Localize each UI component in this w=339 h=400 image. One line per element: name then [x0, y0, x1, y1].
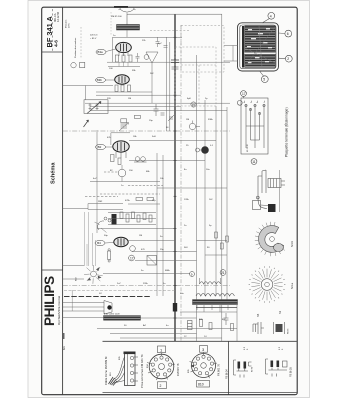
top bus wire [127, 13, 222, 15]
speaker magnet bar [242, 26, 244, 68]
pick-up lead wire [258, 198, 267, 209]
vertical wire x163 [162, 155, 164, 296]
svg-text:Mesures: Mesures [65, 19, 68, 28]
svg-text:PHILIPS: PHILIPS [42, 276, 57, 326]
node 17 [241, 91, 247, 97]
terminal 4 [268, 12, 275, 19]
vertical wire x157 [156, 153, 158, 296]
plug pin leads [134, 356, 138, 358]
svg-text:40 30 20: 40 30 20 [247, 143, 249, 152]
header dashes [52, 9, 54, 51]
terminal 6 [285, 30, 292, 37]
antenna input coil (hatched) [117, 25, 140, 31]
capacitor C2 on bus [171, 60, 179, 63]
pick-up chassis line [279, 170, 281, 212]
svg-text:B2: B2 [98, 145, 102, 149]
RF box wires [113, 36, 183, 38]
resistor R4 [115, 85, 118, 92]
keyboard dashes [64, 296, 151, 298]
mains connector [104, 301, 112, 315]
lower wires [97, 328, 237, 330]
switch contacts [104, 217, 107, 220]
AGC wire [63, 85, 113, 87]
legend dashed pointer [80, 27, 82, 59]
switch bank cluster [112, 214, 117, 225]
coupling cap on bus [173, 303, 177, 312]
capacitor C1 [136, 53, 140, 62]
tube B2 label [96, 144, 106, 149]
oscillator coil caps [154, 104, 159, 116]
light keyboard row [64, 290, 175, 292]
long vertical feeder x205 [204, 100, 206, 296]
resistor R6 [128, 85, 131, 92]
wave switch arc [98, 221, 104, 230]
arrow mark [84, 120, 89, 127]
vertical wire x169 [169, 42, 171, 131]
vertical wire x97 [96, 130, 98, 233]
pick-up plug [268, 179, 281, 188]
tone knob [201, 146, 209, 154]
svg-text:Schéma: Schéma [51, 162, 57, 184]
terminal 2 [285, 55, 292, 62]
svg-text:1M: 1M [139, 235, 142, 237]
dashed output coupling box [181, 26, 224, 73]
frame notch [114, 6, 128, 8]
diode holder B [266, 346, 293, 377]
svg-text:4-6: 4-6 [53, 40, 59, 47]
output transformer primary loops [200, 282, 221, 284]
variable inductor L5 [121, 119, 127, 123]
resistor R2 [122, 55, 125, 62]
svg-text:Prise à broches FM 661 76: Prise à broches FM 661 76 [140, 354, 144, 388]
svg-text:2: 2 [160, 384, 162, 388]
svg-text:S1: S1 [278, 310, 282, 314]
svg-text:21: 21 [221, 271, 225, 275]
ground stub [71, 290, 73, 311]
svg-text:S5: S5 [256, 313, 260, 317]
padder trimmer [168, 115, 174, 121]
terminal 5 [261, 76, 268, 83]
socket B2 bottom tag [197, 381, 210, 388]
node 9 [190, 272, 195, 277]
transformer leads [197, 305, 237, 341]
vertical wire x166 [165, 37, 167, 131]
volume pot [189, 123, 195, 129]
pick-up arm [258, 170, 266, 198]
AF/PS dashed line [63, 285, 230, 287]
resistor R1 [115, 55, 118, 62]
resistor R16 [231, 324, 234, 331]
svg-text:Position des touches: Position des touches [74, 37, 77, 58]
svg-text:1M: 1M [186, 119, 189, 121]
svg-text:Plaquette terminale (Étalonnag: Plaquette terminale (Étalonnage) [284, 107, 289, 157]
osc trimmer caps [156, 37, 160, 47]
bottom panel divider [103, 340, 297, 342]
tube B2 [113, 141, 129, 152]
svg-text:810: 810 [198, 383, 204, 387]
electrolytic capacitor [188, 321, 193, 330]
bus node ticks [174, 37, 177, 318]
loudspeaker block outline [238, 23, 279, 71]
grid leak row [104, 171, 118, 173]
phone jack box [253, 201, 261, 210]
speaker lower winding [245, 54, 276, 67]
screen wire [96, 91, 152, 93]
svg-text:4: 4 [270, 14, 272, 18]
svg-text:S4 a: S4 a [290, 282, 294, 289]
tube B3a label [96, 49, 106, 54]
long vertical feeder x222 [221, 14, 223, 341]
svg-text:S4 b: S4 b [290, 240, 294, 247]
node 17b [129, 255, 135, 261]
legend pushbutton circle [71, 62, 76, 67]
svg-text:FM 87-100: FM 87-100 [111, 16, 122, 18]
tuning gang [84, 100, 108, 114]
keyboard riser wires [84, 212, 86, 266]
svg-text:20°C: 20°C [69, 23, 71, 28]
dashed speaker feed box [175, 47, 216, 106]
tuning arrow [87, 102, 101, 114]
resistor R10 [147, 198, 154, 201]
cable end sheath [109, 377, 118, 386]
osc section wires [129, 140, 216, 142]
heater bar (hatched) [104, 316, 141, 321]
terminal board wires [245, 104, 247, 148]
svg-text:821: 821 [63, 345, 66, 350]
svg-text:2: 2 [287, 57, 289, 61]
detector box [147, 256, 157, 266]
speaker feed wire [224, 45, 238, 47]
node 11 [251, 159, 257, 165]
svg-text:B3b: B3b [97, 78, 103, 82]
osc grid wire [90, 106, 181, 108]
resistor R12 [220, 243, 223, 249]
svg-text:Dpt SERVICE Central: Dpt SERVICE Central [57, 296, 61, 325]
socket B1 bottom tag [158, 382, 167, 389]
bottom panel base [103, 392, 297, 394]
svg-text:80 82: 80 82 [252, 366, 254, 372]
IF coil [118, 169, 126, 177]
speaker upper winding [245, 26, 276, 52]
band selector dashed line [63, 130, 230, 132]
output transformer windings [196, 294, 234, 297]
socket B1 pin1 box [158, 346, 166, 353]
diode holder A [234, 360, 254, 378]
socket B2 arrow [191, 365, 195, 368]
svg-text:Câble Fiche FM 889 M: Câble Fiche FM 889 M [104, 356, 108, 385]
svg-text:+ 85 V: + 85 V [90, 38, 97, 40]
PHILIPS cell separator [42, 269, 63, 271]
resistor R11 [215, 232, 218, 238]
resistor R5 [121, 85, 124, 92]
long vertical feeder x196 [196, 55, 198, 341]
node 21 [220, 270, 226, 276]
svg-text:FB 56 34: FB 56 34 [226, 369, 229, 379]
keyboard switch S2 sunburst [91, 271, 97, 277]
S4a contact numbers ring [249, 266, 286, 302]
transformer base line [196, 307, 237, 309]
resistor R9 [136, 198, 143, 201]
diode circle [130, 246, 136, 252]
svg-text:220 6.3: 220 6.3 [90, 35, 98, 37]
band switch box [88, 204, 123, 210]
switch S1 coil [274, 310, 290, 334]
plug body FM 889 [125, 352, 136, 386]
resistor R8 [118, 158, 121, 165]
svg-text:5: 5 [263, 78, 265, 82]
jack plug [268, 204, 276, 212]
AM rod antenna [146, 52, 158, 63]
rotary switch S4b (crescent) [259, 226, 284, 253]
grid wire [96, 94, 181, 96]
border frame [42, 7, 298, 395]
tube B3a [116, 42, 132, 52]
svg-text:17: 17 [130, 256, 134, 260]
coupling coil pair [135, 157, 140, 162]
long vertical feeder x227 [226, 107, 228, 300]
svg-text:FB 56: FB 56 [288, 328, 290, 334]
output transformer core (hatched) [193, 300, 238, 305]
cathode wire [108, 66, 140, 68]
svg-text:6: 6 [287, 32, 289, 36]
capacitor C11 [224, 313, 229, 325]
resistor R13 [226, 236, 229, 242]
long vertical feeder x216 [215, 106, 217, 296]
svg-text:B3a: B3a [97, 50, 103, 54]
AGC dash-dot rail [180, 25, 182, 341]
tube socket B1 (below view) [149, 354, 174, 379]
tube B4 label [95, 240, 105, 245]
rotary switch S4a (sunburst) [261, 279, 273, 291]
svg-text:1M: 1M [128, 98, 131, 100]
socket B1 leads [161, 353, 163, 356]
speaker diagonal braces [245, 27, 275, 66]
svg-text:FM 615 76: FM 615 76 [176, 363, 180, 376]
svg-text:15: 15 [192, 103, 196, 107]
svg-text:12.12.56: 12.12.56 [56, 11, 60, 22]
misc value labels [93, 35, 226, 338]
tube socket B2 (below view) [192, 354, 216, 378]
main HT bus [174, 14, 176, 341]
S4b radial contacts [255, 222, 285, 256]
mixer wires [85, 102, 230, 104]
svg-text:6.3V 220V 110V: 6.3V 220V 110V [104, 314, 120, 316]
socket B2 pin1 box [200, 346, 208, 353]
tube B3b label [96, 77, 106, 82]
anode wire [197, 240, 228, 242]
capacitor C3 on bus [172, 67, 179, 69]
AF wires [128, 240, 175, 242]
calibration terminal board [241, 98, 268, 154]
node 18 [237, 100, 242, 105]
IF wires [90, 181, 160, 183]
header cell separator [42, 51, 63, 53]
title column divider [62, 7, 64, 395]
svg-text:11: 11 [252, 160, 256, 164]
svg-text:17: 17 [242, 92, 246, 96]
resistor R14 [200, 320, 203, 327]
resistor R3 [129, 55, 132, 62]
capacitor C9 [108, 251, 111, 260]
power wires to plug [63, 302, 104, 304]
right panel box [227, 341, 229, 394]
node 15 [191, 102, 196, 107]
svg-text:FK 661 76: FK 661 76 [217, 363, 221, 376]
tube B3b [115, 75, 130, 84]
FM dipole antenna [119, 8, 136, 12]
tube B4 [114, 237, 128, 246]
switch S5 coil [253, 313, 264, 334]
heater wires [63, 317, 104, 319]
winding speckles [247, 28, 272, 63]
resistor R15 [209, 323, 212, 330]
resistor R7 [111, 155, 115, 162]
cable wires [114, 357, 125, 379]
node A [144, 55, 149, 60]
legend pushbutton square [80, 62, 85, 67]
svg-text:FB 56 35: FB 56 35 [290, 367, 293, 377]
svg-text:B4: B4 [97, 241, 101, 245]
